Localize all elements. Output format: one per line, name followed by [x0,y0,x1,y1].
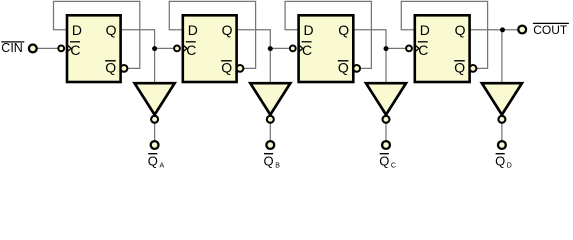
wire Q-bar feedback loop of flip-flop U1 (Qbar to D) [54,1,140,68]
svg-text:C: C [302,42,312,58]
inverter (buffer) G1 [135,83,175,123]
clock inversion bubble U3 [290,46,296,52]
inverter G2 output bubble [267,116,274,123]
inverter (buffer) G2 [250,83,290,123]
clock inversion bubble U2 [174,46,180,52]
terminal Q-bar-B output [266,141,274,149]
clock edge wedge U3 [299,45,303,52]
D flip-flop U3 [290,15,360,82]
junction node at stage 4 [500,27,505,32]
wire Q of U2 to clock of U3 [237,30,291,49]
svg-text:C: C [391,162,396,168]
clock inversion bubble U1 [58,46,64,52]
svg-text:Q: Q [379,154,389,168]
svg-text:Q: Q [495,154,505,168]
inverter G3 output bubble [383,116,390,123]
svg-text:Q: Q [105,60,116,76]
label Q-bar-B [264,154,281,170]
inverter (buffer) G3 [366,83,406,123]
D flip-flop U4 [406,15,476,82]
wire junction to inverter 4 input [501,30,503,83]
label CIN (active low) [1,41,24,55]
svg-text:Q: Q [338,22,349,38]
svg-text:D: D [188,22,198,38]
svg-text:C: C [186,42,196,58]
terminal Q-bar-C output [382,141,390,149]
inverter G1 output bubble [151,116,158,123]
svg-text:Q: Q [106,22,117,38]
inverter (buffer) G4 [482,83,522,123]
label COUT (active low) [533,23,569,37]
svg-text:Q: Q [221,60,232,76]
terminal COUT output [518,26,526,34]
wire Q-bar feedback loop of flip-flop U2 (Qbar to D) [169,1,255,68]
wire Q of U1 to clock of U2 [121,30,175,49]
svg-text:D: D [507,162,512,168]
wire inverter 3 output to terminal [385,124,387,141]
junction node at stage 1 [152,46,157,51]
wire inverter 1 output to terminal [154,124,156,141]
wire Q-bar feedback loop of flip-flop U3 (Qbar to D) [285,1,371,68]
clock edge wedge U2 [183,45,187,52]
Q-bar output bubble U4 [470,65,477,72]
clock edge wedge U4 [415,45,419,52]
wire junction to inverter 1 input [154,48,156,83]
label Q-bar-C [379,154,396,170]
inverter G4 output bubble [498,116,505,123]
svg-text:C: C [418,42,428,58]
svg-text:D: D [420,22,430,38]
Q-bar output bubble U2 [237,65,244,72]
wire Q of U3 to clock of U4 [353,30,407,49]
wire CIN input [37,47,63,49]
wire inverter 4 output to terminal [501,124,503,141]
svg-text:A: A [160,162,165,168]
wire junction to inverter 2 input [269,48,271,83]
svg-text:Q: Q [455,22,466,38]
svg-text:Q: Q [148,154,158,168]
terminal Q-bar-A output [151,141,159,149]
wire Q of U4 to COUT [470,29,518,31]
terminal CIN input [29,45,37,53]
junction node at stage 2 [268,46,273,51]
junction node at stage 3 [384,46,389,51]
svg-text:C: C [70,42,80,58]
svg-text:COUT: COUT [533,23,568,37]
svg-text:Q: Q [264,154,274,168]
terminal Q-bar-D output [498,141,506,149]
svg-text:Q: Q [338,60,349,76]
svg-text:B: B [275,162,280,168]
clock edge wedge U1 [67,45,71,52]
wire junction to inverter 3 input [385,48,387,83]
svg-text:D: D [72,22,82,38]
wire Q-bar feedback loop of flip-flop U4 (Qbar to D) [401,1,487,68]
Q-bar output bubble U1 [121,65,128,72]
clock inversion bubble U4 [406,46,412,52]
label Q-bar-A [148,154,165,170]
wire inverter 2 output to terminal [269,124,271,141]
svg-text:CIN: CIN [1,41,23,55]
D flip-flop U1 [58,15,127,82]
svg-text:Q: Q [454,60,465,76]
label Q-bar-D [495,154,512,170]
svg-text:D: D [304,22,314,38]
Q-bar output bubble U3 [353,65,360,72]
D flip-flop U2 [174,15,243,82]
svg-text:Q: Q [222,22,233,38]
